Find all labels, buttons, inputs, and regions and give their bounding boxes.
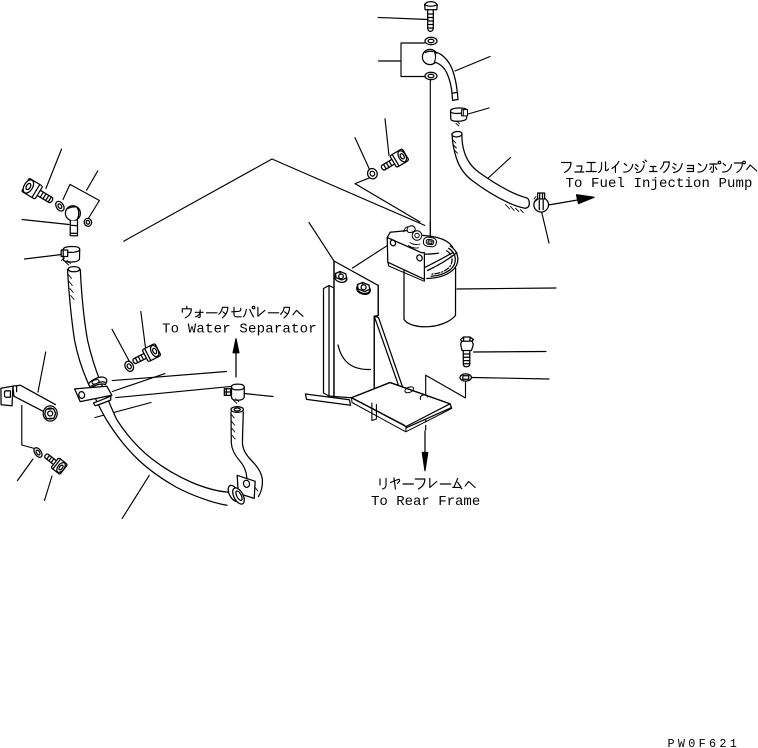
washer L [460,374,471,381]
leader from washer R to lower left [18,459,34,481]
nut K1 [334,272,348,284]
bent leader from bracket R to washer R [22,406,35,449]
leader to washer N2 [355,138,370,171]
bracket K gusset [374,316,407,406]
hose Q (long hose to water separator) [68,267,230,506]
leader to clamp C2 [468,108,489,114]
washer N2 [366,167,379,180]
nut K2 [356,283,371,296]
leader to clamp block steeper [112,374,165,392]
washer R [32,446,43,459]
ASSEMBLY [305,226,457,432]
head mounting plate [387,230,424,279]
leader to washer L [472,378,550,380]
head base ellipse diagonals [415,253,453,273]
callout box for washers B and B2 [379,43,425,77]
leader to washer M2b [112,329,131,364]
bolt R2 (lower-left bolt) [41,450,67,474]
leader to hose C [455,57,490,72]
V callout from washer N2 to head fitting [355,177,420,222]
foot flange lower left [305,394,350,405]
hose D (hose to fuel injection pump) [452,131,530,213]
ferrule (hose Q end collar) [226,484,247,506]
label: To Rear Frame (Japanese) [380,478,475,489]
svg-text:To Rear Frame: To Rear Frame [371,494,480,510]
leader to elbow O [22,220,69,225]
banjo bolt fitting on head [404,226,422,248]
canister top rim crescents [427,246,458,279]
leader to filter canister [457,288,556,289]
clamp F [534,193,549,212]
arrow to water separator [235,353,237,378]
plate hole 2 [416,254,423,262]
svg-text:To Fuel Injection Pump: To Fuel Injection Pump [566,176,753,192]
arrow to fuel injection pump [549,200,580,205]
elbow O (fuel elbow fitting) [65,206,80,236]
fuel filter assembly [387,226,458,327]
filter head dome [413,235,455,262]
plate hole 1 [389,239,396,247]
arrow to rear frame [424,431,426,456]
washer O2 [83,217,93,227]
bracket K (filter mounting bracket) [305,261,451,432]
bracket K base plate [352,383,452,428]
label: To Fuel Injection Pump (Japanese) [562,160,757,173]
bolt A (top vertical bolt) [425,2,438,32]
head port fitting [423,237,437,248]
svg-text:PW0F621: PW0F621 [668,737,741,748]
washer O1 [54,200,66,213]
wire vertical leader from washer B2 down to filter head port [429,81,431,238]
bolt N2b (bracket R bolt) [130,343,161,368]
hose C (short hose from elbow) [435,53,458,101]
leader to bracket R [38,352,46,392]
leader to hose D [485,158,511,182]
boss nut on bracket R [43,406,57,421]
callout bracket for seal washers O1 O2 [63,171,99,219]
assembly line from washer L to base hole [426,375,466,398]
leader to head plate hole [353,244,391,269]
washer B [425,37,437,44]
ARROWS [233,195,594,471]
leader to clamp T [244,394,273,397]
gusset foot over base [372,403,377,421]
leader to clamp P [25,255,62,260]
leader to bolt M2 [385,119,389,156]
leader to clamp block lower [116,386,241,398]
cutout arc in bracket plate [338,345,371,370]
dashed axis line to rear frame arrow [425,400,427,430]
leader to bolt N2b [141,311,146,349]
overlay: leader into head port [429,222,431,238]
bolt N (upper-left angled bolt) [21,178,56,208]
clamp C2 [450,108,467,126]
clamp T [224,384,244,403]
dome inner arc [411,252,439,255]
svg-text:To Water Separator: To Water Separator [162,322,317,338]
bracket K left flange [324,286,335,397]
washer B2 [425,72,437,79]
tube U (water separator tube) [231,407,262,497]
LEADERS [18,18,557,519]
bolt hole in base [420,395,427,400]
slot hole in base [404,386,414,394]
leader to bracket K corner [309,223,334,262]
leader from clamp F down [542,212,550,244]
leader crossing to hose at clamp [95,403,151,418]
leader to bolt N [46,149,62,189]
washer M2b [123,360,135,373]
leader to bolt A (top) [378,18,428,20]
clamp block (hose clamp on bracket R) [75,377,112,406]
mountain leader line (left and right legs) [124,159,425,241]
clamp P [61,246,79,265]
filter canister [404,250,456,327]
elbow C (banjo fitting) [422,49,437,64]
leader to clamp block upper [112,372,226,381]
leader to hose Q lower end [122,475,149,518]
leader from bolt R2 to lower left [45,476,53,501]
bracket R (left mounting bracket) [1,385,57,421]
bolt M2 (head mounting bolt) [378,149,409,175]
bracket K main plate [334,261,378,406]
bolt L (base mounting bolt) [461,337,474,367]
flange S (tube mounting flange) [237,475,258,498]
leader to bolt L [474,351,547,354]
label: To Water Separator (Japanese) [182,306,303,318]
